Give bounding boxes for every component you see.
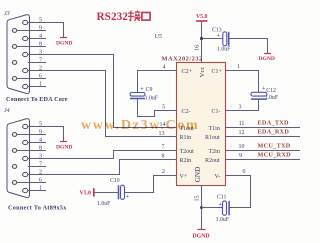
- wire J3 pin 4 stub: [28, 38, 46, 40]
- svg-text:4: 4: [163, 64, 166, 70]
- svg-text:8: 8: [39, 41, 42, 47]
- wire J3 pin 1 stub: [28, 86, 46, 88]
- svg-text:Connect To At89x5x: Connect To At89x5x: [8, 205, 67, 212]
- op chip U5 body: [177, 63, 226, 186]
- svg-text:C12: C12: [266, 88, 276, 94]
- svg-text:+: +: [140, 86, 144, 92]
- svg-text:15: 15: [195, 196, 201, 202]
- svg-text:9: 9: [239, 153, 242, 159]
- capacitor C9: [130, 93, 145, 97]
- wire pin2 V+ to C10: [125, 176, 177, 193]
- DGND top right: [264, 53, 271, 55]
- svg-text:R1out: R1out: [205, 135, 220, 141]
- svg-text:+: +: [219, 202, 223, 208]
- svg-text:1: 1: [39, 185, 42, 191]
- J4 pin wires short: [17, 135, 46, 191]
- svg-text:1: 1: [39, 81, 42, 87]
- svg-text:T1in: T1in: [209, 126, 220, 132]
- wire J4 pin 6 stub: [17, 182, 46, 184]
- wire J3 pin 8 stub: [17, 46, 46, 48]
- svg-text:1.0uF: 1.0uF: [265, 95, 279, 101]
- svg-text:7: 7: [39, 161, 42, 167]
- svg-text:16: 16: [195, 45, 201, 51]
- capacitor C11: [223, 201, 227, 215]
- svg-text:DGND: DGND: [259, 56, 275, 62]
- hanzi 接: [128, 10, 141, 21]
- svg-text:V5.0: V5.0: [196, 14, 208, 20]
- wire Vcc pin16: [201, 22, 203, 63]
- wire J4 pin 4 stub: [28, 142, 46, 144]
- svg-text:7: 7: [162, 145, 165, 151]
- svg-text:J4: J4: [4, 107, 10, 114]
- svg-text:R2in: R2in: [180, 158, 192, 164]
- svg-text:1.0uF: 1.0uF: [217, 47, 231, 53]
- wire J3 pin 9 stub: [17, 30, 46, 32]
- hanzi 口: [142, 13, 150, 21]
- svg-text:MAX202/232: MAX202/232: [162, 56, 203, 63]
- wire J4 pin 8 stub: [17, 150, 46, 152]
- svg-text:8: 8: [162, 154, 165, 160]
- J3 pin numbers: [39, 17, 42, 87]
- junction Vcc/C13: [200, 37, 203, 40]
- svg-text:MCU_RXD: MCU_RXD: [258, 151, 292, 158]
- svg-text:2: 2: [162, 169, 165, 175]
- svg-text:6: 6: [39, 177, 42, 183]
- svg-text:C1-: C1-: [212, 109, 221, 115]
- svg-text:DGND: DGND: [193, 234, 210, 240]
- svg-text:C2-: C2-: [182, 109, 191, 115]
- svg-text:5: 5: [162, 104, 165, 110]
- capacitor C12: [251, 92, 267, 96]
- svg-text:C2+: C2+: [182, 69, 193, 75]
- J4 pin numbers: [39, 121, 42, 191]
- svg-text:C1+: C1+: [212, 69, 223, 75]
- DGND symbol at J3: [60, 37, 67, 39]
- chip pin 15 GND wire: [201, 186, 203, 230]
- svg-text:GND: GND: [194, 167, 202, 183]
- wire J4 pin2 to U5 pin8: [28, 160, 177, 175]
- svg-text:V-: V-: [215, 174, 221, 180]
- wire C13 to DGND: [229, 39, 268, 54]
- J4 pin circles: [12, 124, 27, 192]
- svg-text:6: 6: [39, 73, 42, 79]
- svg-text:11: 11: [239, 121, 245, 127]
- svg-text:C9: C9: [146, 87, 153, 93]
- svg-text:RS232: RS232: [97, 11, 129, 23]
- svg-text:MCU_TXD: MCU_TXD: [258, 142, 291, 149]
- svg-text:7: 7: [39, 57, 42, 63]
- wire J4 pin 1 stub: [28, 190, 46, 192]
- svg-text:C11: C11: [217, 195, 227, 201]
- svg-text:U5: U5: [155, 34, 162, 40]
- svg-text:1.0uF: 1.0uF: [216, 217, 230, 223]
- wire J4 pin 7 stub: [28, 166, 46, 168]
- wire J4 pin5 to DGND: [28, 127, 64, 142]
- wire J3 pin3 to U5 pin14: [28, 55, 177, 128]
- wire J4 pin3 to U5 pin7: [28, 151, 177, 159]
- svg-text:J3: J3: [4, 11, 10, 17]
- svg-text:+: +: [217, 33, 221, 39]
- connector J4 body: [7, 119, 30, 198]
- wire junction to C11: [202, 207, 223, 209]
- wire J3 pin 6 stub: [17, 78, 46, 80]
- wire C12 bottom to pin 3: [226, 99, 259, 110]
- svg-text:8: 8: [39, 145, 42, 151]
- J3 pin circles column A: [12, 20, 27, 88]
- wire J3 pin 7 stub: [28, 62, 46, 64]
- capacitor C10: [118, 185, 120, 199]
- svg-text:R1in: R1in: [180, 135, 192, 141]
- svg-text:EDA_RXD: EDA_RXD: [258, 128, 290, 135]
- svg-text:1.0uF: 1.0uF: [97, 201, 111, 207]
- svg-text:9: 9: [39, 25, 42, 31]
- svg-text:+: +: [126, 194, 130, 200]
- svg-text:6: 6: [243, 169, 246, 175]
- svg-text:Vcc: Vcc: [199, 67, 206, 78]
- svg-text:1.0uF: 1.0uF: [145, 95, 159, 101]
- svg-text:T2in: T2in: [209, 149, 220, 155]
- svg-text:Connect To EDA Core: Connect To EDA Core: [6, 96, 68, 103]
- svg-text:12: 12: [239, 130, 245, 136]
- svg-text:4: 4: [39, 33, 42, 39]
- J3 pin wires short: [17, 31, 46, 87]
- svg-text:V5.0: V5.0: [80, 191, 92, 197]
- DGND symbol at J4: [60, 141, 67, 143]
- svg-text:T2out: T2out: [180, 149, 195, 155]
- svg-text:9: 9: [39, 129, 42, 135]
- wire J3 pin5 to DGND: [28, 23, 64, 38]
- svg-text:V+: V+: [180, 174, 188, 180]
- wire V5.0 to C10: [95, 192, 118, 194]
- svg-text:4: 4: [39, 137, 42, 143]
- wire J4 pin 9 stub: [17, 134, 46, 136]
- wire J3 pin2 to U5 pin13: [28, 71, 177, 137]
- wire C9 bottom to pin 5: [138, 99, 177, 117]
- junction GND/C11: [200, 206, 203, 209]
- svg-text:EDA_TXD: EDA_TXD: [258, 119, 290, 126]
- svg-text:3: 3: [239, 105, 242, 111]
- DGND bottom: [198, 229, 206, 231]
- svg-text:C10: C10: [110, 178, 120, 184]
- svg-text:DGND: DGND: [56, 144, 72, 150]
- connector J3 body: [7, 15, 30, 94]
- capacitor C13: [202, 38, 223, 40]
- svg-text:www.Dz3w.Com: www.Dz3w.Com: [81, 118, 199, 133]
- svg-text:10: 10: [239, 144, 245, 150]
- svg-text:R2out: R2out: [205, 158, 220, 164]
- svg-text:1: 1: [237, 64, 240, 70]
- svg-text:DGND: DGND: [56, 41, 72, 47]
